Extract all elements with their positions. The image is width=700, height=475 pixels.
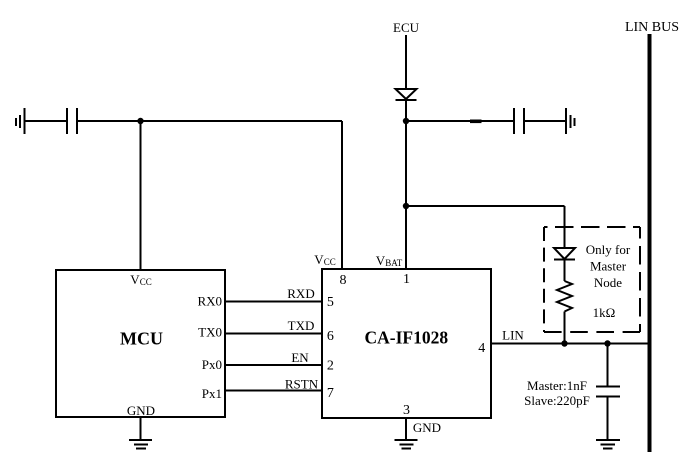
svg-text:4: 4 (478, 341, 485, 356)
svg-text:Only for: Only for (586, 242, 631, 257)
svg-text:GND: GND (127, 403, 155, 418)
svg-text:6: 6 (327, 329, 334, 344)
svg-text:LIN BUS: LIN BUS (625, 20, 679, 35)
svg-text:Master:1nF: Master:1nF (527, 378, 587, 393)
svg-text:Px0: Px0 (202, 357, 222, 372)
svg-text:RX0: RX0 (197, 293, 222, 308)
svg-text:Node: Node (594, 275, 622, 290)
svg-text:1: 1 (403, 272, 410, 287)
svg-text:ECU: ECU (393, 20, 420, 35)
svg-text:GND: GND (413, 420, 441, 435)
svg-text:RSTN: RSTN (285, 377, 319, 392)
svg-text:CA-IF1028: CA-IF1028 (364, 328, 448, 348)
svg-text:8: 8 (340, 273, 347, 288)
svg-text:RXD: RXD (287, 286, 314, 301)
svg-text:EN: EN (291, 350, 309, 365)
svg-text:LIN: LIN (502, 328, 524, 343)
svg-text:Master: Master (590, 258, 627, 273)
svg-text:Px1: Px1 (202, 386, 222, 401)
svg-text:3: 3 (403, 403, 410, 418)
svg-text:5: 5 (327, 295, 334, 310)
svg-text:1kΩ: 1kΩ (593, 305, 616, 320)
svg-text:TXD: TXD (288, 318, 315, 333)
svg-text:Slave:220pF: Slave:220pF (524, 393, 590, 408)
svg-text:7: 7 (327, 386, 334, 401)
svg-text:MCU: MCU (120, 329, 163, 349)
svg-text:2: 2 (327, 358, 334, 373)
svg-text:TX0: TX0 (198, 325, 222, 340)
